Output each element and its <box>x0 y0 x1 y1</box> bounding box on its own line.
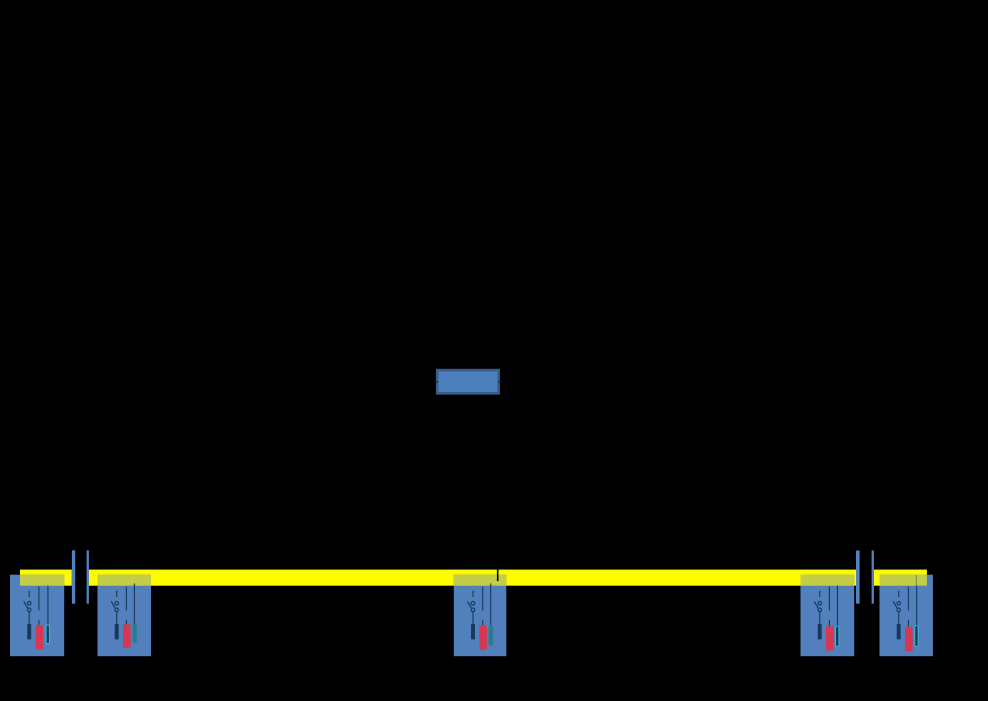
beaker B4 (test cell container) <box>801 575 855 657</box>
red anode electrode in beaker B4 <box>826 587 834 651</box>
reference electrode in beaker B5 <box>893 591 900 640</box>
red anode electrode in beaker B1 <box>36 587 44 650</box>
insulating joint right, line 1 <box>856 551 860 604</box>
electrolyte band in beaker B3 (pipe passing through cell) <box>454 575 507 586</box>
reference electrode in beaker B3 <box>468 591 475 640</box>
teal coupon electrode (outlined) in beaker B4 <box>836 586 839 647</box>
insulating joint left, line 1 <box>72 550 75 603</box>
electrolyte band in beaker B4 (pipe passing through cell) <box>801 575 855 586</box>
teal coupon electrode (solid) in beaker B2 <box>132 583 136 643</box>
electrolyte band in beaker B5 (pipe passing through cell) <box>880 575 927 586</box>
pipeline segment 1 (yellow pipe, left of left insulating joint) <box>20 570 72 586</box>
wire stub at rectifier right terminal <box>499 381 502 383</box>
electrolyte band in beaker B2 (pipe passing through cell) <box>98 575 152 586</box>
insulating joint left, line 2 <box>87 550 89 603</box>
reference electrode in beaker B4 <box>814 591 821 640</box>
rectifier (blue box) <box>437 370 498 393</box>
beaker B2 (test cell container) <box>98 575 152 657</box>
reference electrode in beaker B2 <box>111 591 118 640</box>
wire from rectifier negative terminal down to pipeline at beaker B3 <box>497 395 499 582</box>
red anode electrode in beaker B3 <box>479 587 487 650</box>
electrolyte band in beaker B1 (pipe passing through cell) <box>20 575 64 586</box>
reference electrode in beaker B1 <box>24 591 31 640</box>
pipeline segment 3 (yellow pipe, right of right insulating joint) <box>874 570 927 586</box>
beaker B3 (test cell container) <box>454 575 507 657</box>
pipeline segment 2 (yellow pipe, between insulating joints) <box>89 570 856 586</box>
beaker B5 (test cell container) <box>880 575 933 657</box>
teal coupon electrode (outlined) in beaker B1 <box>46 586 49 644</box>
red anode electrode in beaker B5 <box>905 587 913 652</box>
wire of teal coupon seen through electrolyte band in beaker B5 <box>916 575 917 586</box>
teal coupon electrode (solid) in beaker B3 <box>489 583 493 645</box>
wire stub at rectifier left terminal <box>435 381 438 383</box>
teal coupon electrode (outlined) in beaker B5 <box>915 586 918 647</box>
red anode electrode in beaker B2 <box>123 587 131 648</box>
insulating joint right, line 2 <box>872 551 874 604</box>
beaker B1 (test cell container) <box>10 575 64 657</box>
